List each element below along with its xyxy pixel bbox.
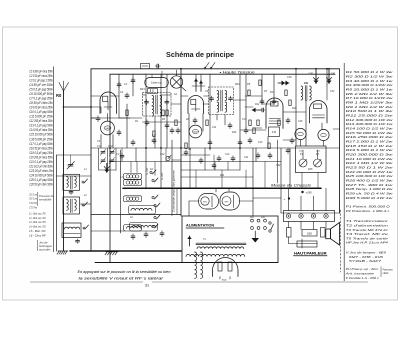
net label Haute Tension	[220, 71, 255, 75]
svg-text:5Y3GB - 6AF7: 5Y3GB - 6AF7	[349, 259, 382, 263]
mains selector	[250, 217, 266, 229]
wire: left frame vertical	[90, 69, 92, 251]
svg-text:G. acc: G. acc	[161, 172, 164, 180]
tube V1 socket	[101, 121, 115, 135]
svg-text:C41: C41	[331, 73, 336, 76]
wire: cathode bus	[110, 161, 281, 163]
antenna coil L3	[62, 223, 81, 243]
diode pair arrows right	[278, 81, 289, 86]
svg-text:CT1 Trim: CT1 Trim	[29, 201, 37, 205]
ground: antenna mast	[57, 251, 68, 254]
coil L4	[124, 180, 142, 186]
svg-text:C8 50 μF chim 25v: C8 50 μF chim 25v	[29, 101, 53, 105]
svg-text:L6 - Choc HF: L6 - Choc HF	[29, 233, 46, 237]
wire: v146	[145, 74, 147, 188]
svg-text:31: 31	[145, 284, 149, 288]
svg-text:C40: C40	[309, 73, 314, 76]
svg-text:sensibilité: sensibilité	[39, 198, 52, 202]
parts list: transformers group	[346, 219, 390, 245]
svg-text:CV1: CV1	[97, 146, 102, 148]
potentiometer box P1 P2	[296, 146, 327, 173]
svg-text:C25 0,1 μF pap 500v: C25 0,1 μF pap 500v	[29, 178, 53, 182]
label box 17b	[269, 127, 280, 137]
svg-text:ALIMENTATION: ALIMENTATION	[186, 224, 214, 228]
parts list: variable capacitors group	[29, 192, 54, 210]
wire: v274	[273, 74, 275, 98]
arrow: mains input	[187, 236, 191, 246]
switch: mains	[269, 222, 274, 232]
svg-text:C24 10.000 pF 500v: C24 10.000 pF 500v	[29, 173, 53, 177]
rotary switch S1	[170, 70, 186, 91]
svg-text:C17: C17	[242, 118, 247, 121]
parts list: capacitors (left column)	[29, 67, 53, 253]
connector strip	[284, 211, 335, 222]
power transformer T1	[186, 243, 246, 256]
svg-text:C19: C19	[258, 141, 263, 144]
tube V4 socket	[295, 128, 306, 139]
ground: power supply	[252, 231, 260, 243]
svg-text:C9 100 pF mica 250v: C9 100 pF mica 250v	[29, 106, 53, 110]
trimmer capacitors	[97, 146, 116, 170]
svg-text:Masse du Chassis: Masse du Chassis	[271, 183, 312, 187]
wire: second HT rail	[110, 73, 335, 75]
wire: extra links 2	[91, 85, 340, 215]
svg-text:C21: C21	[244, 156, 249, 159]
wire: v172	[171, 140, 173, 216]
wire: top HT bus	[91, 68, 340, 70]
svg-text:R17: R17	[270, 91, 275, 94]
parts list: coils group	[29, 212, 52, 252]
svg-text:C10 0,1 μF pap 500v: C10 0,1 μF pap 500v	[29, 110, 53, 114]
wire: v327 top	[326, 69, 328, 85]
svg-text:P2 Potentiom. 1 MΩ A.I.: P2 Potentiom. 1 MΩ A.I.	[346, 209, 390, 213]
resistors (various)	[126, 80, 291, 149]
svg-text:HP Jeu H.P. 21cm AP4: HP Jeu H.P. 21cm AP4	[346, 241, 389, 245]
junction dots	[90, 68, 330, 189]
parts list: tubes group	[346, 251, 386, 264]
svg-text:• Haute Tension: • Haute Tension	[220, 71, 255, 75]
component reference labels	[84, 76, 335, 282]
svg-text:CV1 C.var: CV1 C.var	[29, 192, 37, 196]
parts list: accessories group bottom right	[344, 267, 393, 280]
svg-text:CT2 Trim: CT2 Trim	[29, 206, 37, 210]
wire: v262	[261, 74, 263, 98]
svg-text:C6 10.000 pF 500v: C6 10.000 pF 500v	[29, 92, 53, 96]
svg-text:R21: R21	[220, 174, 225, 177]
svg-text:R0: R0	[56, 93, 62, 98]
parts list: resistors (right column)	[344, 63, 394, 281]
svg-text:C26 50 µF chim 500v: C26 50 µF chim 500v	[29, 183, 53, 187]
wire: stage links	[56, 69, 329, 231]
output tube horizontal	[220, 192, 240, 210]
wire: speaker feed lines	[281, 188, 340, 213]
svg-text:C12 250 pF mica 250v: C12 250 pF mica 250v	[29, 119, 53, 123]
svg-text:C24: C24	[276, 164, 281, 167]
svg-text:F Fusible 1 A - 250 v: F Fusible 1 A - 250 v	[346, 276, 380, 280]
svg-text:la sensibilité V m/aut et RF´s: la sensibilité V m/aut et RF´s latéral	[79, 277, 163, 281]
filament winding	[195, 252, 203, 278]
svg-text:500: 500	[307, 232, 312, 236]
node +HT	[301, 190, 312, 194]
wire: AVC bus	[91, 147, 340, 149]
coil L3	[124, 174, 142, 180]
variable tuning arrows	[192, 79, 205, 92]
svg-text:C32: C32	[330, 90, 335, 93]
svg-text:5Y3: 5Y3	[222, 279, 227, 282]
svg-text:C28: C28	[298, 120, 303, 123]
arrow left with cap	[252, 108, 265, 113]
switch knob	[166, 156, 171, 161]
wire: dashed boundary	[340, 210, 342, 272]
svg-text:17β: 17β	[272, 130, 277, 134]
label ALIMENTATION	[186, 224, 224, 229]
svg-text:C21 0,1 μF pap 250v: C21 0,1 μF pap 250v	[29, 160, 53, 164]
svg-text:CH: CH	[304, 81, 308, 85]
label: oscillator wire	[146, 167, 149, 175]
rectifier tube V6	[213, 258, 239, 280]
wire: v161	[160, 74, 162, 188]
wire: lower chassis line	[70, 250, 181, 252]
svg-text:R19: R19	[292, 107, 297, 110]
coil L7	[130, 223, 158, 232]
tube V2 envelope	[188, 96, 204, 114]
svg-text:C1 6.800 pF mica 500v: C1 6.800 pF mica 500v	[29, 69, 53, 73]
svg-text:HAUT.PARLEUR: HAUT.PARLEUR	[294, 251, 327, 255]
wire: chassis ground bus	[123, 187, 321, 189]
wire: v253	[252, 148, 254, 216]
diode arrow D2	[326, 71, 336, 84]
capacitors (various)	[96, 78, 294, 240]
wire: right frame vertical	[339, 69, 341, 213]
svg-text:En appuyant sur le poussoir on: En appuyant sur le poussoir on lit la se…	[78, 270, 171, 274]
tube V1 envelope	[100, 92, 117, 113]
svg-text:C12: C12	[160, 153, 165, 156]
coil L8	[124, 225, 142, 232]
svg-text:C2 150 pF mica 250v: C2 150 pF mica 250v	[29, 74, 53, 78]
svg-text:C3 0,1 μF pap 1.500v: C3 0,1 μF pap 1.500v	[29, 78, 53, 82]
svg-text:câblé: câblé	[383, 272, 390, 275]
tube V3 envelope	[266, 98, 283, 128]
wire: v240	[239, 74, 241, 150]
svg-text:C5 0,5 μF pap 500v: C5 0,5 μF pap 500v	[29, 87, 53, 91]
svg-text:C16 5.000 pF 250v: C16 5.000 pF 250v	[29, 137, 53, 141]
svg-text:Cadre a p.: Cadre a p.	[151, 82, 162, 85]
wire: v281	[278, 140, 282, 213]
svg-text:R12: R12	[255, 103, 260, 106]
wire: antenna feed	[63, 106, 91, 108]
svg-text:C13 0,1 μF pap 500v: C13 0,1 μF pap 500v	[29, 124, 53, 128]
output transformer TR	[301, 81, 311, 101]
wire: bottom frame	[95, 262, 278, 264]
tube V4 envelope	[310, 101, 328, 124]
coil L6	[129, 206, 156, 215]
svg-text:R30 5.000 Ω 1W 1w: R30 5.000 Ω 1W 1w	[346, 196, 394, 200]
svg-text:C14: C14	[225, 153, 230, 156]
node +HT 2	[284, 197, 291, 201]
antenna coil L1	[63, 174, 80, 194]
tuning coil (cadre)	[145, 71, 169, 94]
svg-text:accordés: accordés	[39, 248, 51, 252]
fuse box on HT bus	[141, 64, 150, 69]
speaker	[326, 223, 340, 246]
trimmer: antenna	[67, 155, 75, 169]
indicator tube 6AF7	[199, 194, 219, 210]
svg-text:C30: C30	[287, 76, 292, 79]
svg-text:C19 0,5 μF pap 250v: C19 0,5 μF pap 250v	[29, 151, 53, 155]
coil L5	[124, 196, 142, 202]
IF transformer MF1	[143, 93, 172, 117]
svg-text:C18 50 pF mica 250v: C18 50 pF mica 250v	[29, 146, 53, 150]
wire: v210	[209, 74, 211, 150]
wire: v296	[295, 69, 297, 146]
IF transformer MF2	[209, 87, 234, 115]
svg-text:C11 5.000 pF 250v: C11 5.000 pF 250v	[29, 115, 53, 119]
svg-text:C17 0,1 μF pap 500v: C17 0,1 μF pap 500v	[29, 142, 53, 146]
svg-text:C11: C11	[212, 126, 217, 129]
net label Masse du Chassis	[271, 183, 312, 187]
wire: v181	[180, 69, 182, 216]
svg-text:R14: R14	[232, 131, 237, 134]
svg-text:C14 100 pF mica 250v: C14 100 pF mica 250v	[29, 128, 53, 132]
antenna coil L2	[63, 197, 80, 214]
svg-text:C23 25 μF chim 25v: C23 25 μF chim 25v	[29, 169, 53, 173]
svg-text:G. osc: G. osc	[146, 167, 149, 175]
label: accord wire	[161, 172, 164, 180]
footnote text	[78, 270, 171, 281]
svg-text:Commande unique des gammes: Commande unique des gammes	[172, 170, 176, 212]
svg-text:C4 50 pF cér 150v: C4 50 pF cér 150v	[29, 83, 53, 87]
AVC arrow	[104, 164, 109, 173]
field coil resistor 500	[287, 222, 327, 249]
svg-text:C20 200 pF mica 500v: C20 200 pF mica 500v	[29, 155, 53, 159]
antenna	[56, 81, 69, 251]
svg-text:MF2: MF2	[235, 83, 240, 86]
svg-text:CV: CV	[116, 153, 120, 156]
switch ticks on HT bus	[204, 63, 215, 69]
page rule	[30, 281, 368, 283]
switch contacts antenna	[82, 179, 89, 229]
svg-text:Ant. incorporée: Ant. incorporée	[344, 271, 374, 275]
label: commande unique des gammes	[172, 170, 176, 212]
label HAUT-PARLEUR	[294, 251, 328, 256]
svg-text:Schéma de principe: Schéma de principe	[166, 50, 234, 59]
diode arrow D1	[309, 71, 319, 84]
parts list: potentiometers group	[346, 205, 391, 213]
wire: vertical rail x110	[109, 74, 111, 262]
capacitor on HT bus	[155, 64, 160, 68]
svg-text:C22 2x12 μF chim 500v: C22 2x12 μF chim 500v	[29, 164, 53, 168]
tube V2 socket	[189, 125, 202, 138]
tube V5 socket	[318, 129, 329, 140]
svg-text:R25: R25	[308, 168, 313, 171]
svg-text:MF1: MF1	[140, 88, 145, 91]
switch contacts bank	[150, 170, 160, 228]
svg-text:+190: +190	[306, 190, 313, 194]
page number	[145, 284, 149, 288]
ground: chassis left	[105, 252, 118, 255]
power supply box	[182, 216, 278, 263]
svg-text:CV2 C.var: CV2 C.var	[29, 197, 37, 201]
svg-text:C7 0,1 μF pap 250v: C7 0,1 μF pap 250v	[29, 96, 53, 100]
wire: coil rail	[120, 150, 122, 233]
wire: antenna section rail	[57, 155, 92, 251]
title	[166, 50, 234, 59]
svg-text:C15 10.000 pF 500v: C15 10.000 pF 500v	[29, 133, 53, 137]
